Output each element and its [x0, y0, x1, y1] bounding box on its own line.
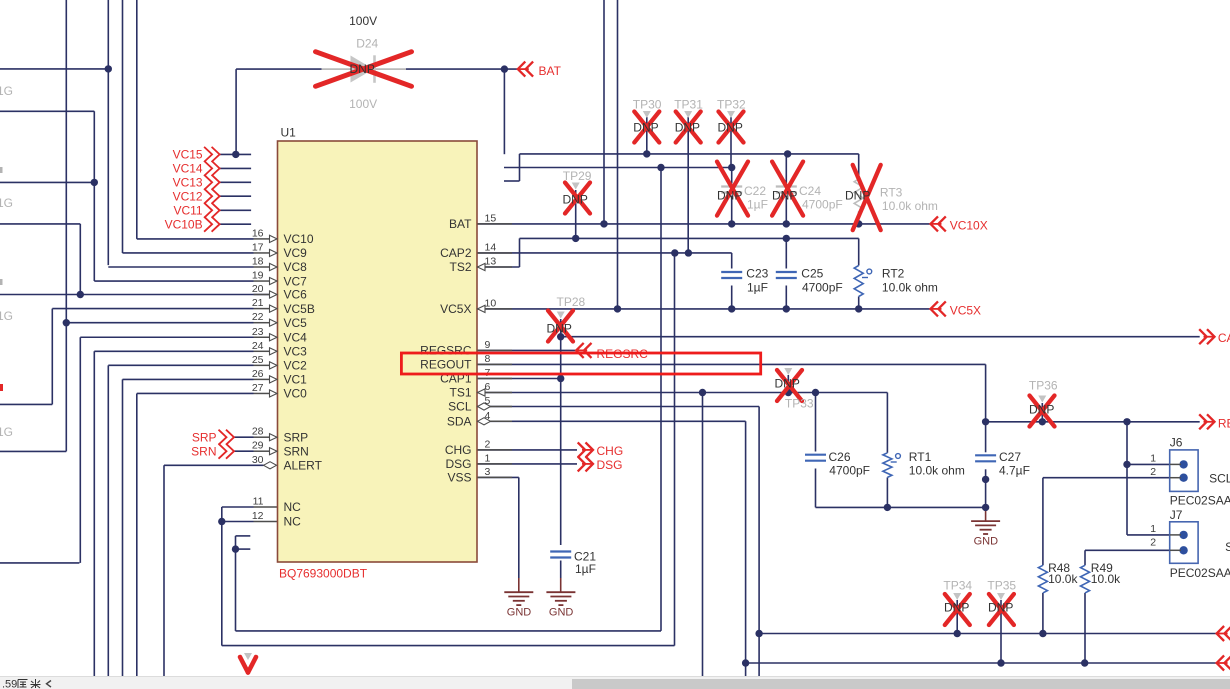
- svg-text:26: 26: [252, 368, 264, 380]
- svg-text:19: 19: [252, 270, 264, 282]
- svg-text:TP28: TP28: [557, 295, 586, 309]
- svg-text:TS2: TS2: [449, 260, 471, 274]
- svg-text:DNP: DNP: [772, 189, 797, 203]
- svg-text:10: 10: [485, 297, 497, 309]
- svg-text:RT2: RT2: [882, 267, 905, 281]
- svg-text:TP33: TP33: [785, 396, 814, 410]
- svg-text:C25: C25: [801, 267, 823, 281]
- svg-text:TP34: TP34: [943, 578, 972, 592]
- svg-text:29: 29: [252, 440, 264, 452]
- svg-text:4700pF: 4700pF: [829, 464, 870, 478]
- svg-text:1µF: 1µF: [747, 280, 768, 294]
- svg-text:5: 5: [485, 395, 491, 407]
- svg-text:1G: 1G: [0, 196, 13, 210]
- svg-text:REGSRC: REGSRC: [420, 344, 472, 358]
- svg-text:VC5B: VC5B: [284, 302, 315, 316]
- svg-text:1G: 1G: [0, 84, 13, 98]
- svg-text:TS1: TS1: [449, 386, 471, 400]
- svg-text:NC: NC: [284, 500, 302, 514]
- svg-text:13: 13: [485, 256, 497, 268]
- svg-text:30: 30: [252, 454, 264, 466]
- svg-text:VC10B: VC10B: [165, 217, 203, 231]
- svg-text:VSS: VSS: [447, 471, 471, 485]
- svg-text:TP32: TP32: [717, 98, 746, 112]
- svg-text:GND: GND: [974, 536, 999, 548]
- svg-text:U1: U1: [281, 126, 297, 140]
- svg-text:1: 1: [1150, 523, 1156, 535]
- svg-text:GND: GND: [507, 607, 532, 619]
- svg-text:DNP: DNP: [547, 321, 572, 335]
- svg-text:CHG: CHG: [597, 444, 624, 458]
- svg-text:DNP: DNP: [563, 192, 588, 206]
- svg-text:SCL: SCL: [448, 400, 472, 414]
- svg-text:4.7µF: 4.7µF: [999, 464, 1030, 478]
- svg-text:VC9: VC9: [284, 246, 308, 260]
- svg-text:SRP: SRP: [192, 430, 217, 444]
- svg-text:15: 15: [485, 212, 497, 224]
- svg-text:DNP: DNP: [944, 600, 969, 614]
- svg-text:1µF: 1µF: [747, 197, 768, 211]
- svg-text:DNP: DNP: [718, 120, 743, 134]
- svg-text:1: 1: [1150, 453, 1156, 465]
- svg-text:DNP: DNP: [350, 62, 375, 76]
- svg-text:4: 4: [485, 410, 491, 422]
- svg-text:D24: D24: [356, 37, 378, 51]
- svg-text:BQ7693000DBT: BQ7693000DBT: [279, 567, 368, 581]
- svg-text:VC7: VC7: [284, 274, 308, 288]
- svg-text:6: 6: [485, 381, 491, 393]
- svg-text:24: 24: [252, 340, 264, 352]
- svg-text:VC12: VC12: [173, 189, 203, 203]
- svg-text:4700pF: 4700pF: [802, 280, 843, 294]
- svg-text:VC15: VC15: [173, 148, 203, 162]
- svg-text:SRP: SRP: [284, 430, 309, 444]
- svg-text:22: 22: [252, 311, 264, 323]
- svg-text:REGOUT: REGOUT: [420, 358, 472, 372]
- svg-text:18: 18: [252, 256, 264, 268]
- svg-text:SRN: SRN: [284, 444, 309, 458]
- svg-text:23: 23: [252, 326, 264, 338]
- svg-text:CAP: CAP: [1218, 331, 1230, 345]
- svg-text:REG: REG: [1218, 416, 1230, 430]
- svg-text:DSG: DSG: [445, 457, 471, 471]
- svg-text:TP36: TP36: [1029, 378, 1058, 392]
- svg-text:9: 9: [485, 339, 491, 351]
- svg-text:11: 11: [253, 496, 264, 508]
- svg-text:2: 2: [485, 438, 491, 450]
- svg-text:10.0k ohm: 10.0k ohm: [882, 280, 938, 294]
- svg-text:2: 2: [1150, 537, 1156, 549]
- svg-text:VC11: VC11: [173, 204, 202, 218]
- svg-text:16: 16: [252, 227, 264, 239]
- svg-text:1µF: 1µF: [575, 562, 596, 576]
- svg-text:TP29: TP29: [563, 169, 592, 183]
- svg-text:100V: 100V: [349, 14, 377, 28]
- svg-text:VC3: VC3: [284, 345, 308, 359]
- svg-text:12: 12: [252, 510, 264, 522]
- svg-text:DNP: DNP: [845, 189, 870, 203]
- svg-text:VC10: VC10: [284, 232, 314, 246]
- svg-text:VC14: VC14: [173, 162, 203, 176]
- svg-text:S: S: [1225, 540, 1230, 554]
- svg-text:10.0k ohm: 10.0k ohm: [909, 464, 965, 478]
- svg-text:VC10X: VC10X: [950, 218, 988, 232]
- svg-text:TP31: TP31: [674, 98, 703, 112]
- svg-text:20: 20: [252, 283, 264, 295]
- svg-text:VC8: VC8: [284, 260, 308, 274]
- svg-text:VC13: VC13: [173, 176, 203, 190]
- svg-text:SCL: SCL: [1209, 472, 1230, 486]
- svg-text:TP35: TP35: [987, 578, 1016, 592]
- svg-text:1: 1: [485, 452, 491, 464]
- svg-text:CAP2: CAP2: [440, 246, 472, 260]
- svg-text:21: 21: [252, 297, 264, 309]
- svg-text:DSG: DSG: [597, 458, 623, 472]
- svg-text:.59: .59: [2, 678, 17, 689]
- svg-text:28: 28: [252, 426, 264, 438]
- svg-text:RT3: RT3: [880, 185, 903, 199]
- svg-text:RT1: RT1: [909, 450, 932, 464]
- svg-text:17: 17: [252, 241, 264, 253]
- svg-text:DNP: DNP: [717, 189, 742, 203]
- svg-text:BAT: BAT: [449, 217, 472, 231]
- svg-text:VC2: VC2: [284, 359, 308, 373]
- svg-text:ALERT: ALERT: [284, 459, 323, 473]
- svg-text:VC5X: VC5X: [950, 303, 981, 317]
- svg-text:PEC02SAA: PEC02SAA: [1170, 494, 1230, 508]
- svg-text:TP30: TP30: [633, 98, 662, 112]
- svg-text:10.0k: 10.0k: [1048, 572, 1078, 586]
- svg-text:CHG: CHG: [445, 443, 472, 457]
- svg-text:GND: GND: [549, 607, 574, 619]
- svg-text:27: 27: [252, 382, 264, 394]
- svg-text:2: 2: [1150, 466, 1156, 478]
- svg-text:VC4: VC4: [284, 330, 308, 344]
- svg-text:C27: C27: [999, 450, 1021, 464]
- svg-text:SRN: SRN: [191, 444, 216, 458]
- svg-text:4700pF: 4700pF: [802, 197, 843, 211]
- svg-text:J6: J6: [1170, 436, 1183, 450]
- svg-text:SDA: SDA: [447, 415, 472, 429]
- svg-text:NC: NC: [284, 515, 302, 529]
- svg-text:VC6: VC6: [284, 288, 308, 302]
- svg-text:VC5: VC5: [284, 316, 308, 330]
- svg-text:J7: J7: [1170, 508, 1183, 522]
- svg-text:VC1: VC1: [284, 373, 308, 387]
- svg-text:DNP: DNP: [775, 376, 800, 390]
- svg-text:DNP: DNP: [988, 600, 1013, 614]
- svg-text:3: 3: [485, 466, 491, 478]
- svg-text:VC5X: VC5X: [440, 302, 471, 316]
- svg-text:VC0: VC0: [284, 387, 308, 401]
- svg-text:100V: 100V: [349, 97, 377, 111]
- svg-text:10.0k: 10.0k: [1091, 572, 1121, 586]
- svg-text:1G: 1G: [0, 425, 13, 439]
- svg-text:C23: C23: [746, 267, 768, 281]
- svg-text:14: 14: [485, 241, 497, 253]
- svg-text:PEC02SAA: PEC02SAA: [1170, 566, 1230, 580]
- svg-text:C22: C22: [744, 184, 766, 198]
- svg-text:BAT: BAT: [539, 64, 562, 78]
- svg-text:C24: C24: [799, 184, 821, 198]
- svg-text:10.0k ohm: 10.0k ohm: [882, 199, 938, 213]
- svg-text:DNP: DNP: [675, 120, 700, 134]
- svg-text:C26: C26: [829, 450, 851, 464]
- svg-text:8: 8: [485, 353, 491, 365]
- svg-text:DNP: DNP: [1029, 402, 1054, 416]
- svg-text:25: 25: [252, 354, 264, 366]
- svg-text:DNP: DNP: [633, 120, 658, 134]
- svg-text:1G: 1G: [0, 309, 13, 323]
